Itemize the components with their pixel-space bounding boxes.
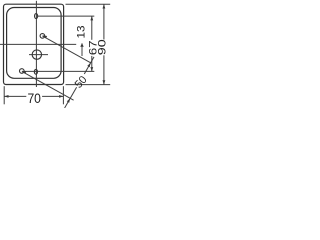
- dim line 90: [103, 4, 105, 39]
- vertical centerline: [35, 1, 37, 87]
- arrow at hole B: [22, 71, 27, 74]
- arrow up at 67 top: [90, 16, 93, 20]
- inner plate outline: [7, 8, 62, 79]
- hole A: [40, 34, 45, 39]
- dim line 50 (broken for text): [65, 87, 77, 108]
- circle C: [32, 50, 41, 59]
- arrow up under 13 text: [80, 43, 83, 47]
- horizontal centerline: [0, 43, 76, 45]
- extension line: right for 70: [62, 86, 64, 104]
- extension line: left for 70: [3, 86, 5, 104]
- dim line 70 (broken for text): [4, 95, 26, 97]
- hole B: [20, 69, 25, 74]
- arrow at hole A: [43, 35, 48, 38]
- extension line: top edge: [66, 3, 111, 5]
- leader line from hole B: [22, 71, 74, 100]
- arrow on 50 dim at leader A crossing: [87, 63, 90, 68]
- svg-text:70: 70: [27, 90, 41, 106]
- arrow down at 67 bottom: [90, 67, 93, 71]
- arrow up at 90 top: [103, 4, 106, 8]
- dim line 67 (broken for text): [91, 16, 93, 40]
- leader tail under 13 text: [81, 43, 83, 56]
- arrow right at 70 right: [59, 95, 63, 98]
- extension line: hole B center: [24, 70, 94, 72]
- outer plate outline: [4, 4, 64, 84]
- slot hole (bottom, on centerline): [34, 69, 37, 74]
- svg-text:13: 13: [76, 25, 88, 38]
- slot hole (top): [35, 14, 38, 19]
- arrow down at 90 bottom: [103, 80, 106, 84]
- leader line from hole A: [42, 36, 91, 63]
- extension line: slot center: [38, 15, 95, 17]
- arrow left at 70 left: [4, 95, 8, 98]
- extension line: bottom edge: [66, 84, 111, 86]
- svg-text:90: 90: [96, 39, 108, 55]
- arrow on 50 dim at leader B crossing: [67, 98, 70, 102]
- crosshair of circle C: [29, 54, 48, 56]
